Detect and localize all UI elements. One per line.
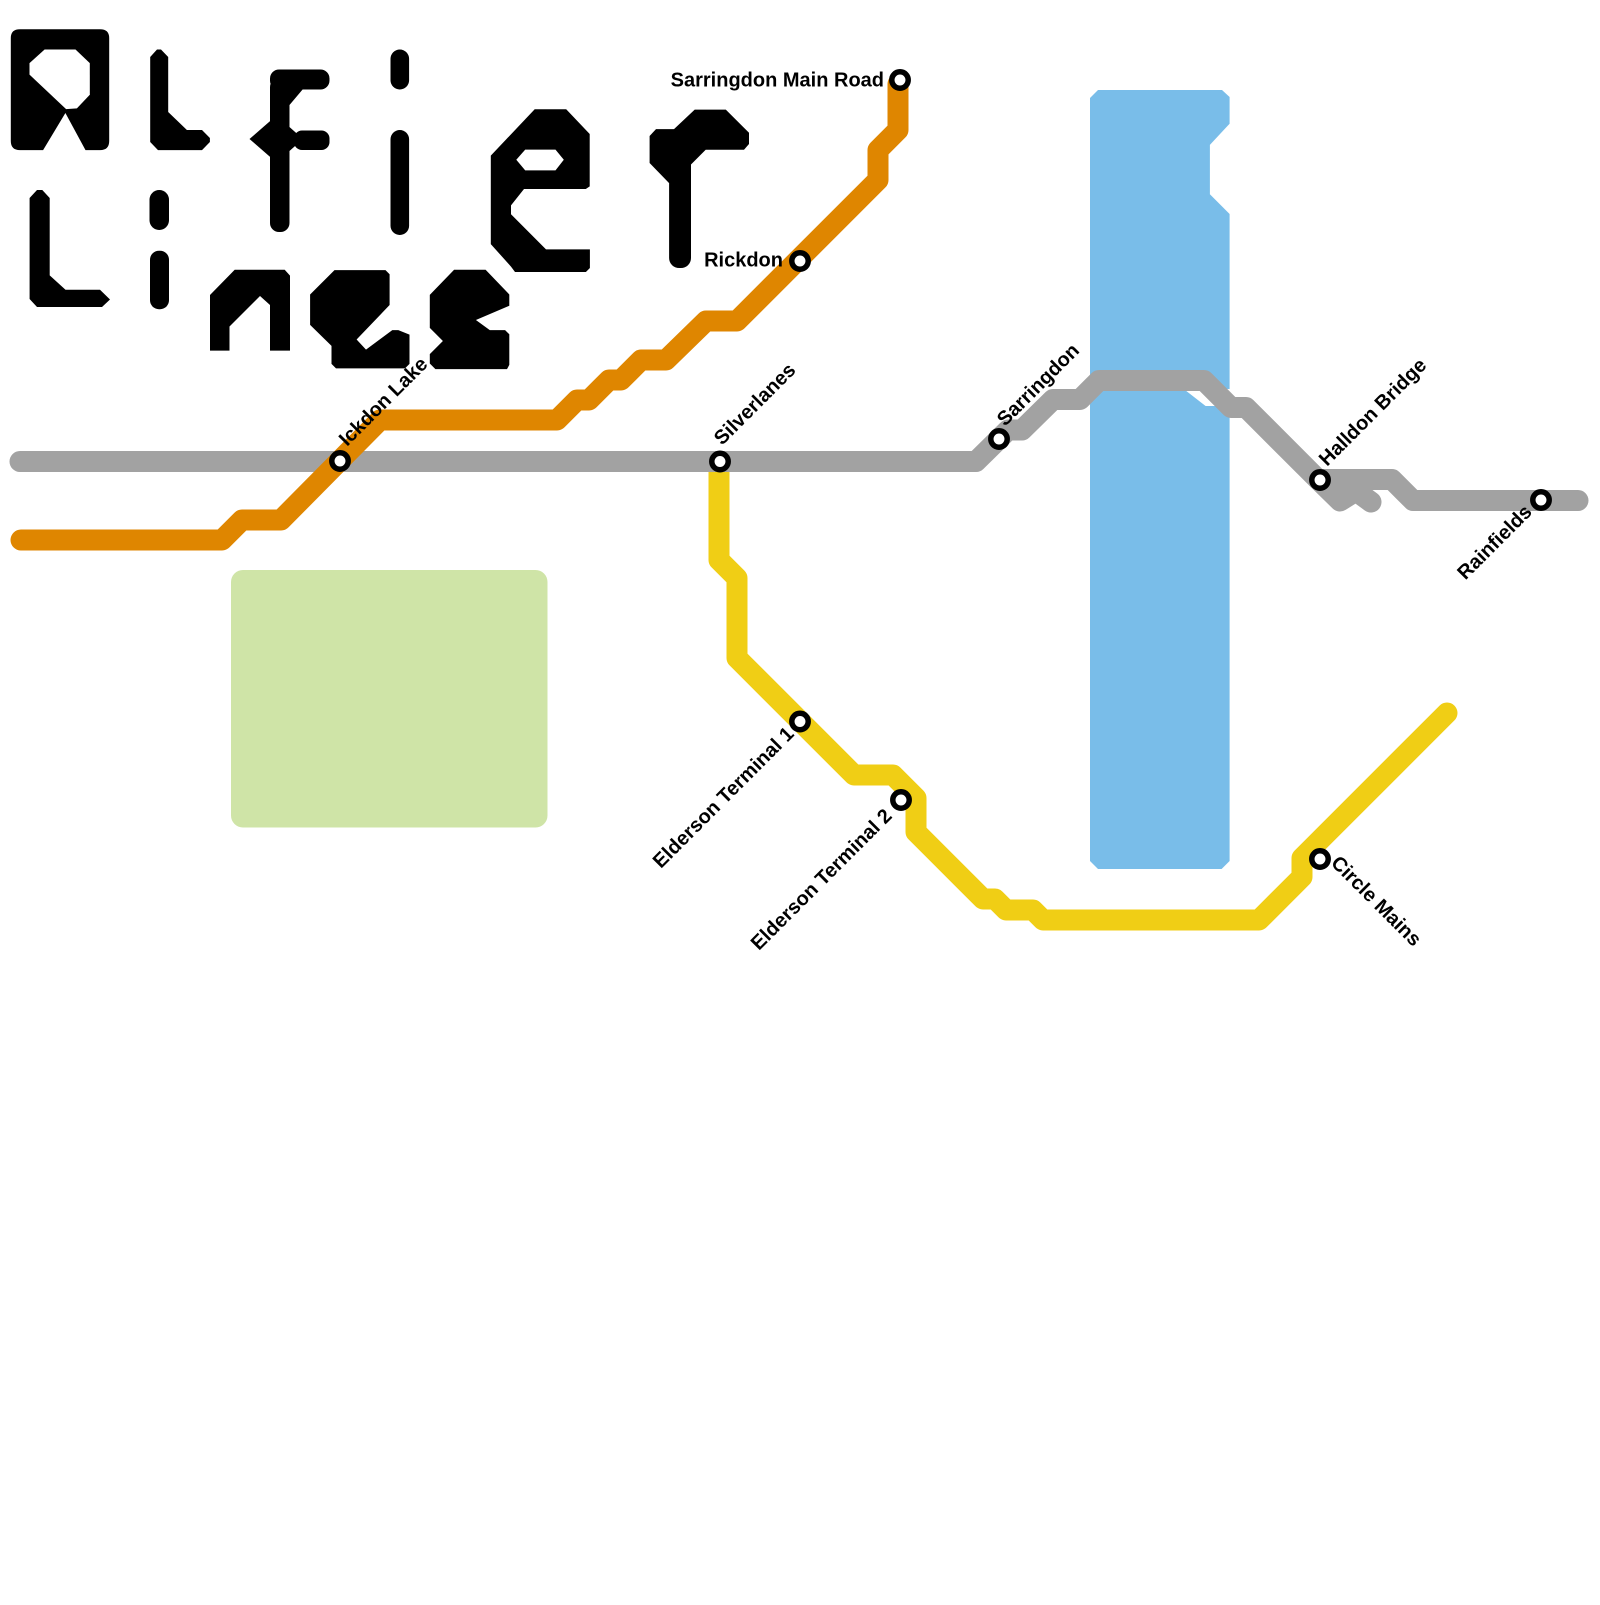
station Sarringdon Main Road xyxy=(892,72,908,88)
station Ickdon Lake xyxy=(332,453,348,469)
orange line xyxy=(21,84,898,540)
svg-text:Sarringdon Main Road: Sarringdon Main Road xyxy=(671,70,884,92)
logo letter r (row1) xyxy=(650,129,691,183)
station Rainfields xyxy=(1533,492,1549,508)
logo letter i (row1) xyxy=(391,50,410,90)
svg-text:Rickdon: Rickdon xyxy=(704,250,783,272)
station Elderson Terminal 1 xyxy=(792,713,808,729)
grey line main xyxy=(20,381,1371,503)
station Halldon Bridge xyxy=(1312,472,1328,488)
river upper section xyxy=(1090,90,1230,389)
station Sarringdon xyxy=(991,431,1007,447)
logo letter f xyxy=(270,70,330,90)
logo letter e (row2) xyxy=(310,270,409,368)
logo letter e (row1) xyxy=(491,109,590,272)
station Circle Mains xyxy=(1312,851,1328,867)
logo letter s xyxy=(430,270,510,369)
logo letter L (row1) xyxy=(150,50,210,151)
station Silverlanes xyxy=(712,453,728,469)
station Rickdon xyxy=(792,253,808,269)
logo letter L (row2) xyxy=(30,190,110,307)
station Elderson Terminal 2 xyxy=(893,792,909,808)
logo letter A xyxy=(11,29,109,150)
yellow line xyxy=(719,465,1447,920)
logo letter n xyxy=(210,270,290,351)
grey line stub at Halldon Bridge xyxy=(1318,480,1578,501)
logo letter i (row2) xyxy=(150,190,170,230)
park green rectangle xyxy=(231,570,548,828)
river lower section xyxy=(1090,390,1230,869)
